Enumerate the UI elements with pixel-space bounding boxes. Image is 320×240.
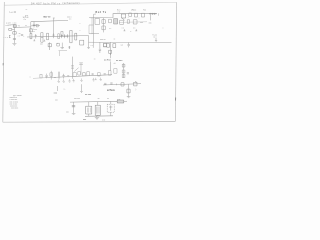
svg-text:xx: xx xyxy=(94,58,96,60)
wire top supply bus xyxy=(31,20,68,21)
capacitor C2 bars xyxy=(13,39,16,40)
capacitor C3 small xyxy=(21,34,23,37)
inductor L2 xyxy=(30,29,33,32)
ground G18 xyxy=(87,48,90,49)
ground G9 xyxy=(68,79,71,82)
svg-text:x 1: x 1 xyxy=(118,11,120,13)
resistor R22 xyxy=(98,73,101,76)
border tick left xyxy=(2,63,4,65)
inductor L8 vertical xyxy=(79,63,83,75)
wire left drop x92 xyxy=(91,18,93,34)
capacitor C4 decoupling xyxy=(33,22,36,28)
resistor R16 xyxy=(133,20,137,24)
ground G5 xyxy=(135,29,137,31)
wire ground stub xyxy=(60,43,64,49)
svg-text:x x: x x xyxy=(122,28,124,30)
capacitor C24 side xyxy=(127,73,129,74)
capacitor C15 xyxy=(109,19,112,23)
resistor R27 xyxy=(134,82,137,86)
wire bus end tick xyxy=(158,13,160,15)
ground G3 xyxy=(44,40,46,42)
svg-text:xx: xx xyxy=(19,33,21,35)
capacitor C26 xyxy=(110,83,112,84)
svg-text:x: x xyxy=(30,77,31,79)
svg-text:xx: xx xyxy=(25,25,27,27)
wire long mid rail xyxy=(89,41,172,44)
svg-text:x1: x1 xyxy=(114,63,116,65)
capacitor C23 xyxy=(122,64,125,67)
svg-text:x x: x x xyxy=(133,28,135,30)
svg-text:xx xxx: xx xxx xyxy=(116,60,123,62)
capacitor C27 bars xyxy=(72,106,75,107)
svg-text:x xxx: x xxx xyxy=(13,23,17,25)
svg-text:xxx: xxx xyxy=(66,112,69,114)
border frame left xyxy=(3,2,5,122)
border smudge right xyxy=(175,98,177,101)
wire L6 drop xyxy=(149,15,151,21)
wire R1 to Q1 xyxy=(12,28,15,30)
transistor Q1 xyxy=(13,25,16,28)
wire V1 to rail xyxy=(110,112,112,116)
inductor L9 small xyxy=(61,31,63,35)
svg-text:Bx2 Tx: Bx2 Tx xyxy=(96,12,107,14)
svg-text:x1x: x1x xyxy=(149,23,152,25)
transformer T4 windings xyxy=(97,107,99,114)
valve V1 box xyxy=(107,104,114,112)
svg-text:x·x: x·x xyxy=(91,45,93,47)
capacitor C1 on vertical xyxy=(13,32,16,34)
svg-text:xxx xxxx: xxx xxxx xyxy=(11,108,18,110)
resistor R15 xyxy=(120,20,124,24)
wire AF band bus xyxy=(45,75,112,78)
resistor R2 ticks xyxy=(9,35,11,38)
svg-text:xxx: xxx xyxy=(140,22,143,24)
svg-text:L-e 40: L-e 40 xyxy=(10,12,17,14)
node junction dot xyxy=(115,84,117,86)
svg-text:xx: xx xyxy=(114,38,116,40)
capacitor C19 xyxy=(67,76,69,77)
resistor R18 tall xyxy=(50,71,53,80)
resistor R21 xyxy=(87,72,90,76)
wire base horizontal xyxy=(15,26,31,29)
wire RF input stub dashed xyxy=(3,36,8,38)
ground G4 xyxy=(124,29,126,31)
wire AF drop upper xyxy=(110,42,112,58)
ground G6 detector xyxy=(155,38,157,42)
capacitor C25 xyxy=(104,83,106,84)
svg-text:xx: xx xyxy=(107,98,109,100)
wire top-right feed xyxy=(91,13,158,17)
wire input feed xyxy=(7,24,15,27)
svg-text:xxTxxx: xxTxxx xyxy=(107,90,116,92)
resistor R20 xyxy=(78,72,81,75)
inductor L3 tall xyxy=(41,33,43,43)
svg-text:xx: xx xyxy=(54,77,56,79)
wire T4 to rail xyxy=(97,114,99,117)
inductor L4 tall xyxy=(70,30,72,42)
wire RF strip bus xyxy=(27,36,78,37)
svg-text:x x: x x xyxy=(69,19,71,21)
resistor R26 xyxy=(121,83,124,86)
wire bus into long rail xyxy=(88,36,90,48)
svg-text:xxx: xxx xyxy=(40,44,43,46)
svg-text:xx: xx xyxy=(98,98,100,100)
resistor R23 xyxy=(108,71,111,76)
inductor L5 xyxy=(107,44,110,48)
output chain wire xyxy=(123,63,125,78)
svg-text:4 x: 4 x xyxy=(24,19,26,21)
wire T3 drop xyxy=(88,102,90,107)
wire drop x103 xyxy=(103,18,105,33)
wire L8 ground drop xyxy=(80,84,83,92)
ground G11 xyxy=(80,78,83,81)
crystal X1 xyxy=(48,42,51,50)
svg-text:xxx: xxx xyxy=(55,100,58,102)
resistor R19 ticks xyxy=(58,71,60,79)
wire T3 to rail xyxy=(88,114,90,116)
resistor R17 xyxy=(40,74,42,78)
svg-text:xx xxx: xx xxx xyxy=(85,94,92,96)
capacitor C22 small xyxy=(104,74,106,75)
resistor R28 xyxy=(127,89,130,93)
svg-text:xxx xx: xxx xx xyxy=(100,39,106,41)
IF shield vertical xyxy=(92,14,94,48)
wire T4 drop xyxy=(97,102,99,106)
resistor R9 xyxy=(113,44,116,48)
resistor R4 xyxy=(30,33,32,38)
wire audio line y84.5 xyxy=(103,84,141,85)
wire bus to shield xyxy=(78,35,89,37)
capacitor C5 xyxy=(35,34,37,39)
svg-text:94 407 kc/s FM rx: 94 407 kc/s FM rx xyxy=(31,1,61,5)
ground G17 main xyxy=(95,116,99,119)
wire AF band bus faint left xyxy=(33,77,45,80)
capacitor C17 xyxy=(45,74,47,79)
svg-text:(schematic): (schematic) xyxy=(63,1,80,5)
svg-text:BA–10: BA–10 xyxy=(44,16,52,19)
node supply junction tick xyxy=(53,18,55,21)
resistor R3 second row xyxy=(31,24,40,27)
wire C27 drop xyxy=(73,102,75,113)
transistor Q4 xyxy=(114,69,117,74)
transformer T2 box xyxy=(80,40,84,45)
capacitor C16 xyxy=(127,20,129,23)
resistor R5 xyxy=(47,33,49,40)
svg-text:xx x: xx x xyxy=(32,31,35,33)
wire input branch vertical xyxy=(30,22,32,34)
wire drop x128.5 xyxy=(128,84,130,96)
svg-text:xx: xx xyxy=(57,43,59,45)
wire Q1 collector vertical xyxy=(13,24,15,43)
resistor R1 xyxy=(9,29,12,31)
ground G13 xyxy=(95,78,97,80)
inductor L6 horizontal xyxy=(149,13,156,15)
wire PSU bus xyxy=(70,100,117,103)
ground G12 xyxy=(92,78,95,81)
svg-text:x x: x x xyxy=(109,28,111,30)
resistor R13 xyxy=(134,13,137,17)
svg-text:Txx: Txx xyxy=(143,9,146,11)
resistor R7 xyxy=(75,33,77,40)
ground G2 xyxy=(33,39,35,41)
ground G16 xyxy=(72,114,76,115)
wire second row rail xyxy=(119,21,147,24)
svg-text:xRxxx: xRxxx xyxy=(131,9,136,11)
resistor R10 xyxy=(102,20,105,24)
capacitor C13 xyxy=(109,50,112,55)
resistor R12 xyxy=(129,13,132,16)
wire AF drop lower xyxy=(110,61,112,70)
wire mid horizontal y33.7 xyxy=(91,33,100,35)
ground G1 xyxy=(12,44,16,46)
wire after D1 xyxy=(124,100,127,102)
resistor R8 dark xyxy=(104,43,107,46)
border frame bottom xyxy=(3,120,176,123)
transistor Q2 xyxy=(121,14,125,20)
resistor R14 xyxy=(141,13,144,17)
box U3 xyxy=(114,19,118,24)
wire PSU bottom rail xyxy=(85,115,113,118)
resistor R11 xyxy=(102,26,105,30)
ground G8 xyxy=(62,79,65,82)
wire supply drop to RF bus xyxy=(53,21,55,36)
border frame right xyxy=(175,2,176,121)
transformer T4 box xyxy=(95,105,100,115)
capacitor C8 xyxy=(64,34,66,38)
svg-text:4?k: 4?k xyxy=(25,16,28,18)
potentiometer VR1 stem xyxy=(57,86,59,91)
resistor R24 xyxy=(122,70,125,73)
transformer T3 windings xyxy=(87,108,90,113)
trimmer C10 xyxy=(57,43,60,46)
capacitor C21 small xyxy=(92,74,94,75)
capacitor C12 below rail xyxy=(99,42,101,53)
transformer T3 box xyxy=(86,106,92,114)
wire shield stubs xyxy=(89,14,96,34)
svg-text:a ant: a ant xyxy=(6,22,11,25)
ground G10 xyxy=(72,79,75,82)
valve V1 inner xyxy=(109,105,112,110)
capacitor C9 xyxy=(67,34,69,38)
svg-text:x-x: x-x xyxy=(121,45,124,47)
wire stub row y50 xyxy=(59,50,68,56)
svg-text:x xx: x xx xyxy=(102,119,105,121)
capacitor C6 xyxy=(53,33,55,38)
capacitor C20 xyxy=(83,73,86,76)
capacitor C11 xyxy=(69,46,71,49)
box U2 xyxy=(95,19,100,25)
rectifier D1 box xyxy=(117,100,124,103)
resistor R25 xyxy=(122,74,125,77)
capacitor C18 xyxy=(62,74,64,79)
capacitor C7 xyxy=(61,34,63,38)
svg-text:xx: xx xyxy=(26,9,28,11)
node ANT input dashed lead xyxy=(6,24,14,27)
inductor L7 ticks xyxy=(71,65,74,68)
wire shield inner vertical xyxy=(88,25,90,34)
transistor Q3 xyxy=(73,68,79,77)
svg-text:xxx xxx: xxx xxx xyxy=(74,98,80,100)
svg-text:x x: x x xyxy=(18,35,20,37)
wire V1 drop xyxy=(110,101,112,104)
ground G7 xyxy=(57,80,60,83)
resistor R6 xyxy=(58,34,60,39)
ground G14 xyxy=(99,78,102,81)
transistor Q3 collector wire xyxy=(72,57,74,79)
border frame top xyxy=(4,2,176,5)
capacitor C14 xyxy=(128,43,130,48)
ground G15 xyxy=(127,97,131,98)
svg-text:xx Txx: xx Txx xyxy=(104,59,112,61)
